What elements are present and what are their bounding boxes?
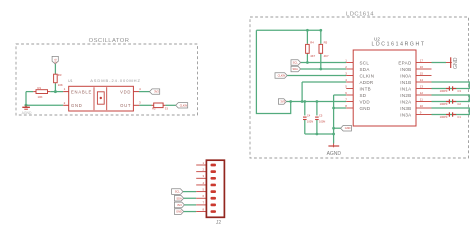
svg-text:10K: 10K	[58, 83, 63, 87]
svg-text:GND: GND	[71, 103, 83, 108]
svg-text:SCL: SCL	[360, 61, 370, 66]
svg-text:4K7: 4K7	[324, 54, 329, 58]
svg-text:OSCILLATOR: OSCILLATOR	[89, 38, 130, 44]
svg-text:IN0A: IN0A	[400, 74, 411, 79]
svg-text:100PF: 100PF	[440, 89, 448, 93]
svg-text:12: 12	[420, 91, 424, 95]
svg-text:16: 16	[420, 65, 424, 69]
svg-text:ENABLE: ENABLE	[71, 89, 92, 94]
svg-text:SDA: SDA	[176, 196, 182, 200]
svg-text:100N: 100N	[319, 119, 325, 123]
svg-text:GND: GND	[360, 106, 371, 111]
svg-text:R5: R5	[324, 40, 328, 44]
svg-text:4K7: 4K7	[310, 54, 315, 58]
svg-text:10: 10	[420, 104, 424, 108]
svg-text:GND: GND	[176, 210, 182, 214]
svg-text:13: 13	[420, 84, 424, 88]
svg-text:R3: R3	[58, 73, 62, 77]
svg-text:17: 17	[420, 58, 424, 62]
svg-text:3V3: 3V3	[177, 203, 182, 207]
svg-text:IN3A: IN3A	[400, 113, 411, 118]
svg-text:LDC1614RGHT: LDC1614RGHT	[372, 41, 426, 47]
svg-text:C2: C2	[457, 102, 461, 106]
svg-text:GND: GND	[453, 57, 459, 69]
svg-text:CLKIN: CLKIN	[360, 74, 375, 79]
svg-text:R1: R1	[38, 86, 42, 90]
svg-text:SCL: SCL	[293, 61, 299, 65]
svg-text:CLKIN: CLKIN	[180, 104, 188, 107]
svg-text:SDA: SDA	[360, 67, 370, 72]
svg-text:U1: U1	[68, 79, 73, 83]
svg-text:ADDR: ADDR	[360, 80, 374, 85]
svg-text:LDC1614: LDC1614	[346, 11, 374, 17]
svg-text:VDD: VDD	[120, 89, 131, 94]
svg-text:100N: 100N	[307, 119, 313, 123]
svg-text:OUT: OUT	[120, 103, 131, 108]
svg-text:C5: C5	[319, 113, 323, 117]
svg-text:ASDMB-24.000MHZ: ASDMB-24.000MHZ	[90, 78, 141, 83]
svg-text:GND: GND	[345, 126, 351, 130]
svg-text:3V3: 3V3	[154, 90, 159, 94]
svg-text:11: 11	[420, 97, 423, 101]
svg-text:100PF: 100PF	[440, 115, 448, 119]
svg-text:100PF: 100PF	[440, 102, 448, 106]
svg-text:IN1A: IN1A	[400, 87, 411, 92]
svg-text:3V3: 3V3	[280, 100, 285, 104]
svg-text:C1: C1	[457, 115, 461, 119]
svg-text:10K: 10K	[38, 95, 43, 99]
svg-text:CLKIN: CLKIN	[278, 74, 286, 78]
svg-text:C3: C3	[457, 89, 461, 93]
svg-text:R4: R4	[310, 40, 314, 44]
svg-text:AGND: AGND	[327, 151, 342, 157]
svg-text:AGND: AGND	[22, 111, 32, 115]
svg-text:INTB: INTB	[360, 87, 371, 92]
svg-text:IN2B: IN2B	[400, 93, 411, 98]
svg-text:SCL: SCL	[175, 190, 181, 194]
svg-text:15: 15	[420, 71, 424, 75]
svg-text:SDA: SDA	[293, 67, 299, 71]
svg-text:3V3: 3V3	[54, 58, 58, 63]
svg-text:VDD: VDD	[360, 100, 371, 105]
svg-text:33: 33	[165, 107, 169, 111]
svg-text:SD: SD	[360, 93, 367, 98]
svg-text:IN0B: IN0B	[400, 67, 411, 72]
svg-text:J2: J2	[216, 220, 222, 225]
svg-text:C4: C4	[307, 113, 311, 117]
svg-text:R2: R2	[152, 107, 156, 111]
svg-text:IN1B: IN1B	[400, 80, 411, 85]
svg-text:IN2A: IN2A	[400, 100, 411, 105]
svg-text:IN3B: IN3B	[400, 106, 411, 111]
svg-text:14: 14	[420, 78, 424, 82]
svg-text:EPAD: EPAD	[398, 61, 412, 66]
